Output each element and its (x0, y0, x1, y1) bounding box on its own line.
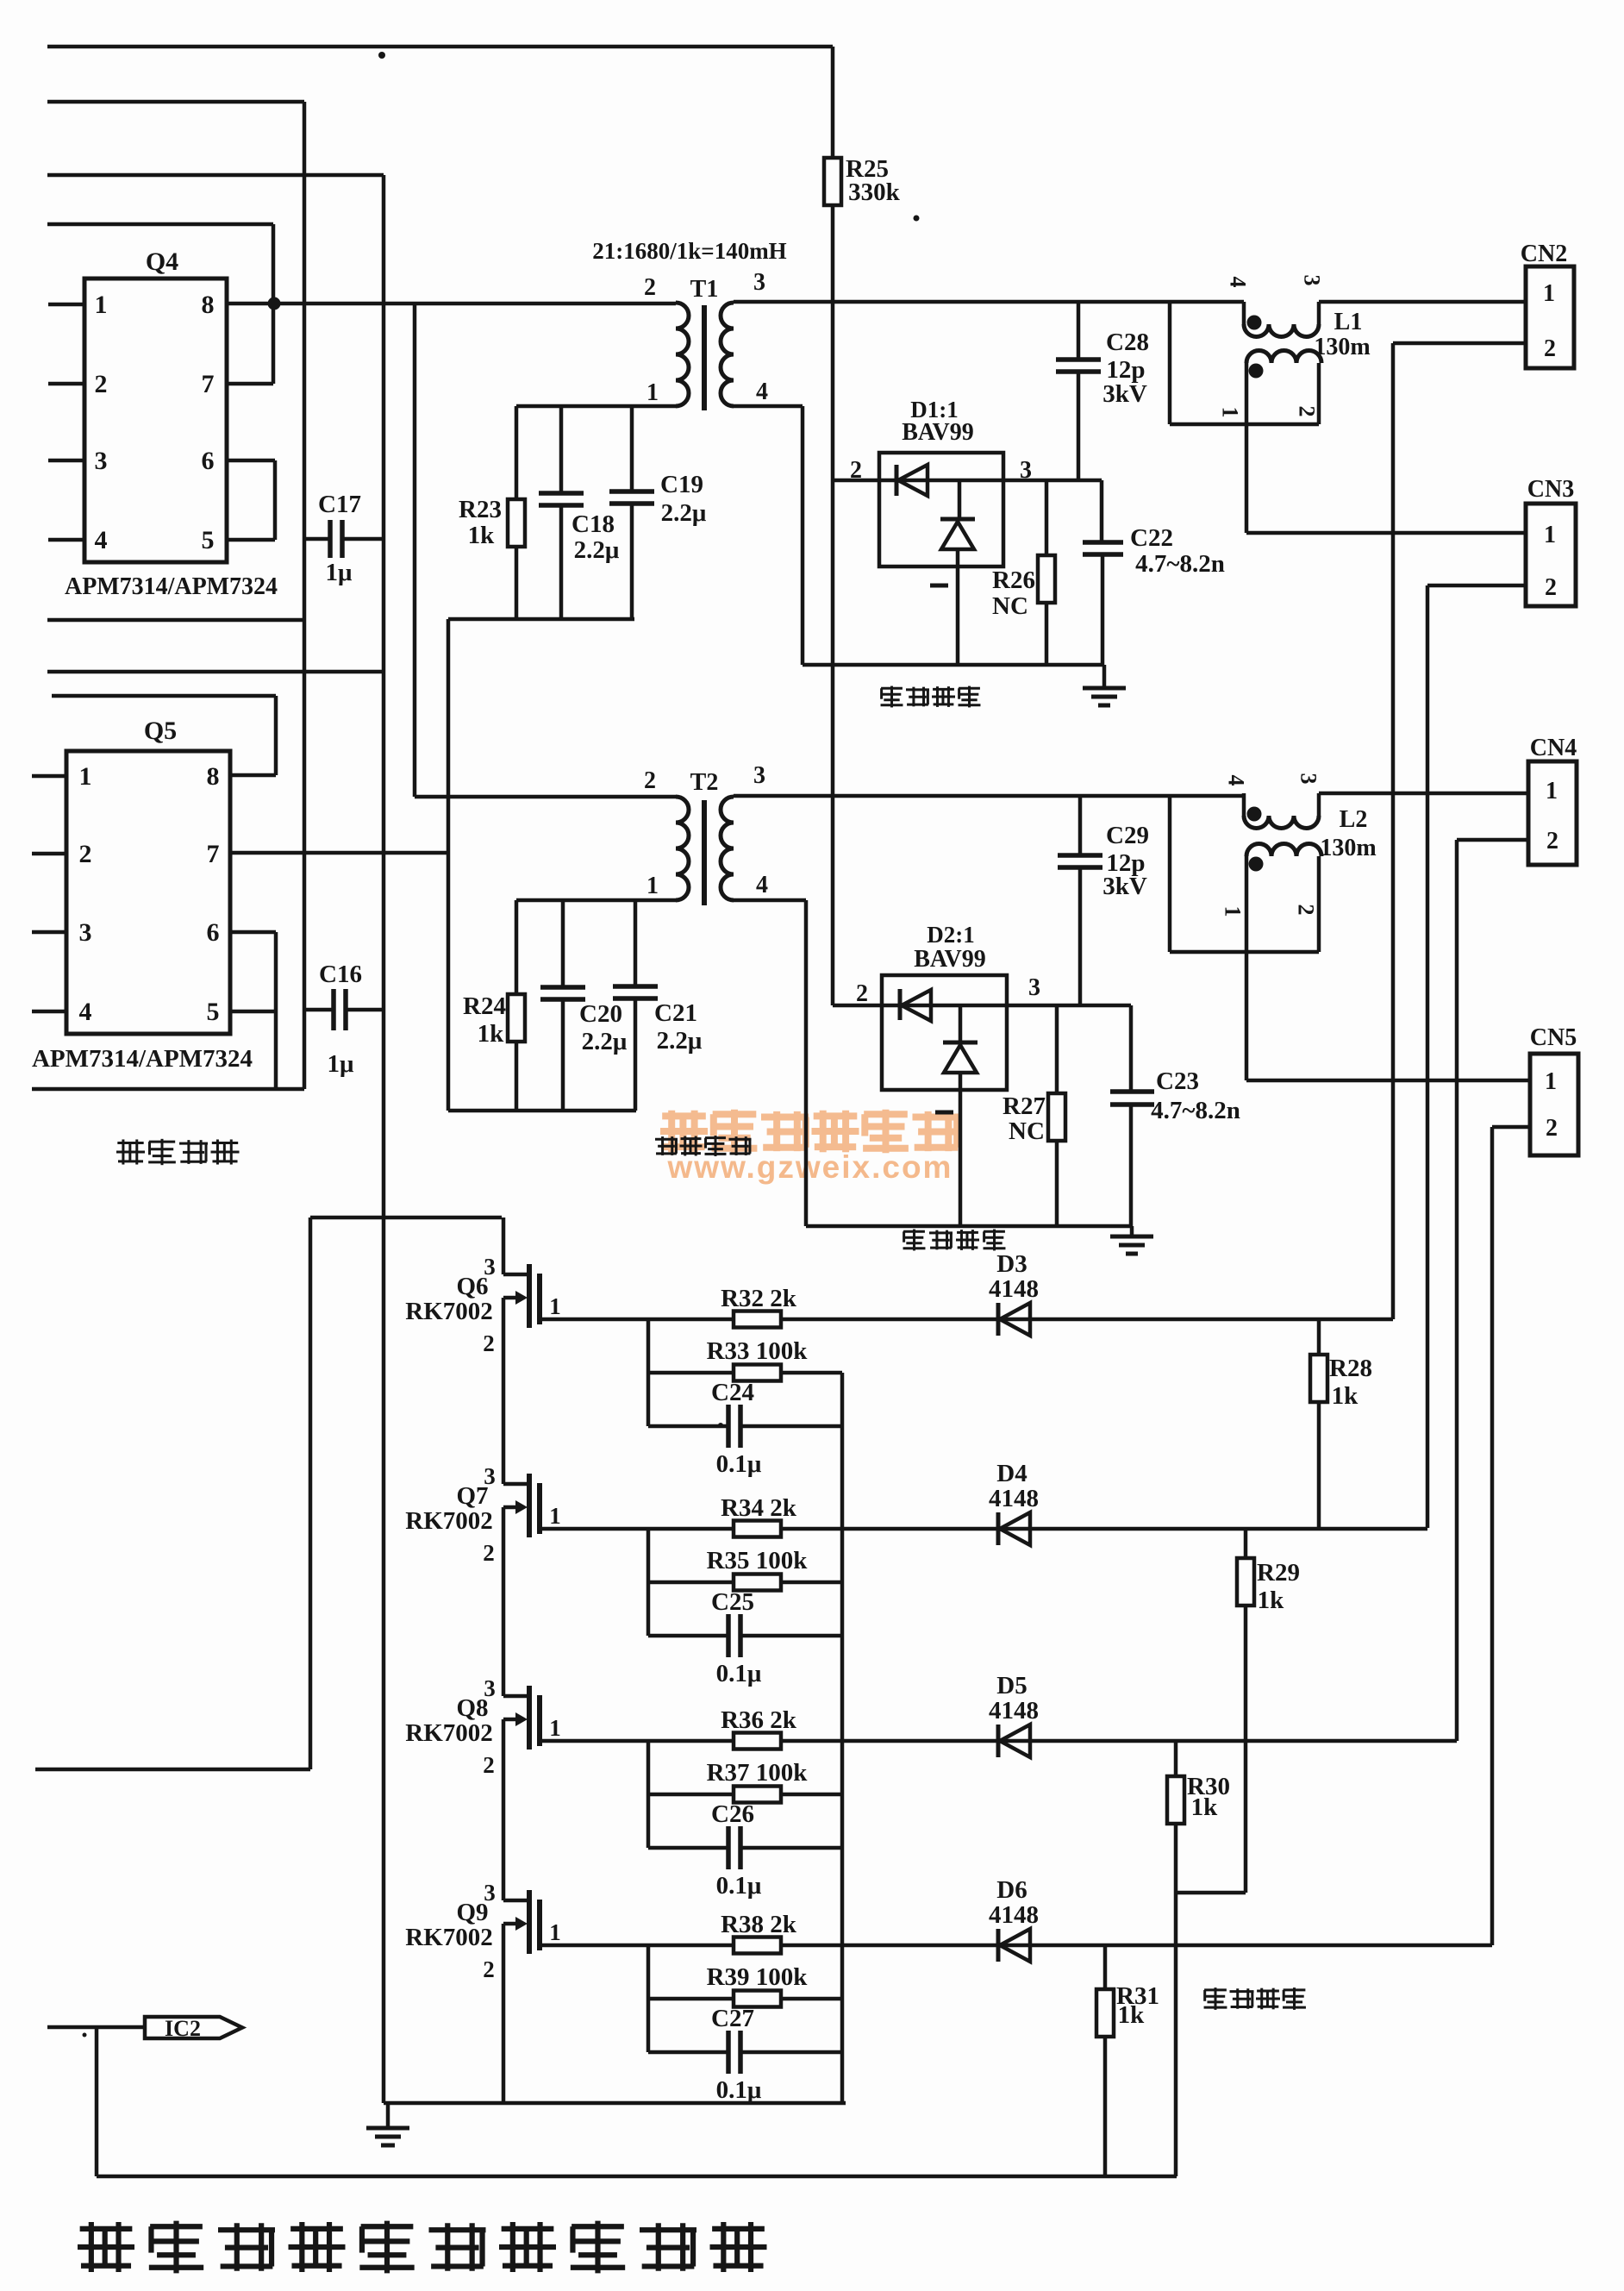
svg-text:R28: R28 (1329, 1355, 1372, 1382)
capacitor C27 0.1u (648, 2005, 842, 2104)
net flag IC2 (47, 2016, 242, 2041)
transistor Q7 RK7002 (405, 1463, 561, 1566)
wire Q4 pin7 tie (227, 382, 273, 386)
label voltage-detect 2 (903, 1230, 1006, 1251)
svg-text:R38 2k: R38 2k (721, 1911, 797, 1938)
wire T2 pin3 line (734, 794, 1244, 798)
svg-text:D3: D3 (996, 1250, 1027, 1278)
wire top rail to R25 (47, 45, 833, 49)
svg-text:4: 4 (79, 998, 92, 1026)
svg-text:D6: D6 (996, 1876, 1027, 1904)
svg-text:CN3: CN3 (1527, 476, 1574, 503)
svg-text:330k: 330k (848, 178, 901, 206)
svg-text:3: 3 (1300, 275, 1325, 286)
connector CN4 (1528, 735, 1577, 865)
svg-text:R33 100k: R33 100k (707, 1337, 809, 1365)
wire Q4pin8 branch down to T2 pin2 (415, 304, 676, 797)
wire L1 pin1 to CN3 pin1 (1246, 531, 1526, 535)
svg-text:RK7002: RK7002 (405, 1719, 493, 1747)
wire D2 pin3 node (1007, 1004, 1131, 1008)
svg-text:C20: C20 (579, 1000, 622, 1028)
wire row2 RC left vertical (646, 1529, 651, 1636)
wire gate feed horizontal (310, 1216, 502, 1220)
wire D2 pin2 from R25 net (833, 1004, 882, 1008)
wire T2 pin4 down (734, 900, 806, 1226)
svg-text:C18: C18 (572, 510, 615, 538)
svg-text:2: 2 (856, 980, 868, 1007)
svg-text:NC: NC (992, 592, 1028, 620)
svg-text:1k: 1k (1332, 1382, 1359, 1410)
svg-text:C26: C26 (711, 1800, 754, 1828)
label drive-circuit (116, 1139, 240, 1165)
svg-text:D4: D4 (996, 1460, 1027, 1487)
resistor R29 1k (1237, 1528, 1300, 1893)
svg-text:1: 1 (1545, 1068, 1557, 1095)
svg-text:3: 3 (753, 269, 765, 296)
resistor R38 2k (540, 1911, 1492, 1954)
svg-text:2: 2 (95, 370, 108, 398)
svg-text:RK7002: RK7002 (405, 1924, 493, 1951)
svg-text:1: 1 (1544, 522, 1556, 548)
svg-text:Q9: Q9 (456, 1899, 488, 1926)
svg-text:2: 2 (1295, 406, 1320, 417)
svg-text:2.2μ: 2.2μ (574, 536, 620, 564)
wire T2 pin1 lead (516, 898, 676, 903)
svg-text:Q6: Q6 (456, 1273, 488, 1300)
svg-text:1k: 1k (478, 1020, 505, 1048)
svg-text:3: 3 (79, 918, 92, 947)
resistor R23 1k (459, 406, 525, 619)
label boost-circuit (655, 1136, 752, 1156)
wire T1 pin3 line (734, 300, 1244, 304)
resistor R33 100k (648, 1337, 842, 1381)
svg-text:3kV: 3kV (1102, 380, 1147, 408)
wire CN5 pin2 to row4 (1492, 1127, 1530, 1945)
svg-text:2: 2 (1546, 1115, 1558, 1142)
resistor R30 1k (1167, 1741, 1230, 2176)
svg-text:C29: C29 (1106, 822, 1149, 849)
svg-text:BAV99: BAV99 (914, 946, 986, 973)
node Q4 pin8 junction (268, 297, 281, 310)
IC Q4 APM7314/APM7324 (48, 247, 278, 600)
capacitor C16 1u (304, 961, 384, 1078)
svg-text:2: 2 (483, 1330, 495, 1356)
svg-text:Q7: Q7 (456, 1482, 488, 1510)
capacitor C23 4.7~8.2n (1110, 1005, 1240, 1226)
svg-text:2: 2 (1294, 905, 1319, 916)
svg-text:4148: 4148 (989, 1901, 1039, 1929)
wire source rail (384, 2101, 846, 2106)
svg-text:R29: R29 (1257, 1559, 1300, 1587)
dual diode D2 BAV99 (856, 922, 1040, 1226)
svg-text:C19: C19 (660, 471, 703, 498)
wire Q4 pin8 to T1 pin2 (227, 302, 676, 306)
svg-text:2: 2 (644, 274, 656, 301)
svg-text:NC: NC (1009, 1117, 1045, 1145)
wire L2 pin3 to CN4 pin1 (1244, 792, 1528, 796)
svg-text:4: 4 (95, 526, 108, 554)
svg-text:1: 1 (646, 873, 659, 899)
svg-text:R35 100k: R35 100k (707, 1547, 809, 1574)
capacitor C28 12p 3kV (1056, 302, 1149, 480)
svg-text:3: 3 (1296, 773, 1321, 785)
capacitor C20 2.2u (540, 900, 628, 1111)
svg-text:2: 2 (79, 840, 92, 868)
svg-text:CN4: CN4 (1530, 735, 1577, 761)
capacitor C26 0.1u (648, 1800, 842, 1900)
svg-text:1μ: 1μ (328, 1050, 355, 1078)
svg-text:R39 100k: R39 100k (707, 1963, 809, 1991)
wire T1pin3 branch to L1 pin2 (1170, 302, 1319, 424)
diode D5 4148 (989, 1672, 1039, 1757)
wire T1 cap bottom rail (448, 617, 634, 622)
svg-text:Q5: Q5 (144, 717, 177, 745)
svg-text:R34 2k: R34 2k (721, 1494, 797, 1522)
svg-text:1k: 1k (1258, 1587, 1285, 1614)
wire net-B vertical x445 (382, 175, 386, 2103)
svg-text:IC2: IC2 (165, 2016, 201, 2041)
svg-text:4: 4 (1226, 277, 1251, 288)
wire T1 pin4 down (734, 406, 803, 665)
svg-text:1: 1 (1218, 407, 1243, 418)
svg-text:1: 1 (549, 1715, 561, 1741)
wire gate feed vertical (309, 1217, 313, 1769)
capacitor C17 1u (304, 491, 384, 586)
svg-text:C25: C25 (711, 1588, 754, 1616)
svg-text:6: 6 (207, 918, 220, 947)
wire T2 cap bottom rail (448, 1109, 636, 1113)
svg-text:D2:1: D2:1 (927, 922, 975, 948)
wire input line 2 (47, 100, 304, 104)
resistor R34 2k (540, 1494, 1427, 1537)
svg-text:1: 1 (549, 1293, 561, 1319)
svg-text:D5: D5 (996, 1672, 1027, 1699)
capacitor C22 4.7~8.2n (1083, 480, 1225, 665)
svg-text:1k: 1k (1118, 2001, 1146, 2029)
wire CN4 pin2 to row3 (1457, 840, 1528, 1741)
wire Q5 pin6-pin5 tie (230, 932, 276, 1089)
svg-text:1: 1 (1546, 778, 1558, 804)
svg-text:C23: C23 (1156, 1067, 1199, 1095)
svg-text:C24: C24 (711, 1379, 754, 1406)
svg-text:R26: R26 (992, 566, 1035, 594)
capacitor C18 2.2u (539, 406, 620, 619)
wire D1 pin2 from R25 net (833, 479, 879, 483)
resistor R35 100k (648, 1547, 842, 1591)
transistor Q9 RK7002 (405, 1880, 561, 1982)
resistor R28 1k (1310, 1319, 1372, 1528)
diode D6 4148 (989, 1876, 1039, 1962)
wire T2pin3 branch to L2 pin2 (1170, 796, 1319, 952)
wire CN3 pin2 to row2 (1427, 585, 1526, 1528)
dual diode D1 BAV99 (850, 397, 1032, 665)
svg-text:4: 4 (756, 379, 768, 405)
wire Q5 pin8 stub (230, 773, 276, 778)
svg-text:3kV: 3kV (1102, 873, 1147, 900)
svg-text:1: 1 (79, 762, 92, 791)
svg-text:21:1680/1k=140mH: 21:1680/1k=140mH (592, 238, 786, 264)
wire RC chain vertical (840, 1373, 845, 2103)
svg-text:3: 3 (1028, 974, 1040, 1001)
svg-text:0.1μ: 0.1μ (716, 1660, 762, 1687)
wire D1 pin3 node (1003, 479, 1102, 483)
watermark (660, 1110, 960, 1185)
svg-text:2: 2 (483, 1956, 495, 1982)
inductor L2 130m (1221, 773, 1377, 1081)
wire input line 8 (35, 1768, 310, 1772)
svg-text:Q4: Q4 (146, 247, 178, 276)
svg-text:6: 6 (202, 447, 215, 475)
svg-text:2.2μ: 2.2μ (661, 499, 707, 527)
wire bottom rail (97, 2175, 1177, 2179)
capacitor C24 0.1u (648, 1379, 842, 1478)
svg-text:130m: 130m (1320, 835, 1376, 861)
wire R29-R30 bottom tie (1176, 1891, 1246, 1895)
svg-text:4148: 4148 (989, 1485, 1039, 1512)
connector CN2 (1521, 241, 1574, 368)
svg-text:C28: C28 (1106, 329, 1149, 356)
wire row3 RC left vertical (646, 1741, 651, 1848)
svg-text:C27: C27 (711, 2005, 754, 2032)
svg-text:R37 100k: R37 100k (707, 1759, 809, 1787)
resistor R39 100k (648, 1963, 842, 2007)
svg-text:CN5: CN5 (1530, 1024, 1577, 1051)
connector CN3 (1526, 476, 1576, 606)
capacitor C19 2.2u (609, 406, 707, 619)
svg-text:R24: R24 (463, 992, 506, 1020)
svg-text:5: 5 (202, 526, 215, 554)
svg-text:1: 1 (646, 379, 659, 406)
speck (83, 52, 920, 2037)
wire net-A vertical x353 (303, 102, 307, 1089)
resistor R26 NC (992, 480, 1055, 665)
svg-text:3: 3 (753, 762, 765, 789)
svg-text:1: 1 (549, 1503, 561, 1529)
svg-text:L1: L1 (1334, 309, 1363, 335)
wire bottom-left input (32, 1087, 304, 1092)
wire L1 pin3 to CN2 pin1 (1319, 300, 1526, 304)
svg-text:7: 7 (207, 840, 220, 868)
resistor R37 100k (648, 1759, 842, 1803)
svg-text:8: 8 (202, 291, 215, 319)
svg-text:2: 2 (483, 1752, 495, 1778)
svg-text:CN2: CN2 (1521, 241, 1567, 267)
svg-text:4148: 4148 (989, 1275, 1039, 1303)
IC Q5 APM7314/APM7324 (32, 717, 253, 1073)
resistor R36 2k (540, 1706, 1457, 1750)
svg-text:4: 4 (756, 872, 768, 898)
svg-text:C16: C16 (319, 961, 362, 988)
wire T1 detect bottom rail (803, 663, 1102, 667)
wire input line 5 (47, 618, 304, 623)
svg-text:2: 2 (1544, 335, 1556, 362)
svg-text:2: 2 (644, 767, 656, 794)
svg-text:0.1μ: 0.1μ (716, 2076, 762, 2104)
svg-text:0.1μ: 0.1μ (716, 1450, 762, 1478)
svg-text:L2: L2 (1340, 806, 1368, 833)
svg-text:1k: 1k (468, 522, 496, 549)
diode D4 4148 (989, 1460, 1039, 1545)
svg-text:4.7~8.2n: 4.7~8.2n (1151, 1097, 1240, 1124)
label voltage-detect 1 (881, 686, 981, 708)
svg-text:130m: 130m (1314, 334, 1370, 360)
wire input line 4 to Q4 pin8 node (47, 224, 273, 384)
wire row4 RC left vertical (646, 1945, 651, 2052)
svg-text:4: 4 (1224, 775, 1249, 786)
wire T2 detect bottom rail (806, 1224, 1131, 1229)
wire Q4 pin6-pin5 tie (227, 460, 275, 540)
svg-text:2.2μ: 2.2μ (657, 1027, 703, 1055)
wire row1 RC left vertical (646, 1319, 651, 1426)
svg-text:R27: R27 (1003, 1092, 1046, 1120)
wire CN2 pin2 to row1 (1393, 343, 1526, 1319)
capacitor C25 0.1u (648, 1588, 842, 1687)
svg-text:RK7002: RK7002 (405, 1507, 493, 1535)
transformer T2 (644, 762, 768, 905)
svg-text:2.2μ: 2.2μ (582, 1028, 628, 1055)
transistor Q6 RK7002 (405, 1254, 561, 1356)
svg-text:1: 1 (1221, 906, 1246, 917)
transformer T1 (592, 238, 786, 410)
diode D3 4148 (989, 1250, 1039, 1336)
svg-text:APM7314/APM7324: APM7314/APM7324 (65, 573, 278, 600)
svg-text:1: 1 (549, 1919, 561, 1945)
wire IC2 to bottom rail (95, 2027, 99, 2176)
wire L2 pin1 to CN5 pin1 (1246, 1079, 1530, 1083)
svg-text:T1: T1 (690, 276, 719, 303)
label current-detect (1204, 1987, 1306, 2010)
svg-text:1μ: 1μ (326, 559, 353, 586)
ground T1 detect (1083, 665, 1126, 705)
svg-text:2: 2 (1546, 828, 1558, 854)
svg-text:1: 1 (1543, 280, 1555, 307)
svg-text:T2: T2 (690, 769, 719, 796)
transistor Q8 RK7002 (405, 1675, 561, 1778)
capacitor C29 12p 3kV (1058, 796, 1149, 1005)
svg-text:Q8: Q8 (456, 1694, 488, 1722)
resistor R24 1k (463, 900, 525, 1111)
svg-text:7: 7 (202, 370, 215, 398)
svg-text:1: 1 (95, 291, 108, 319)
svg-text:C17: C17 (318, 491, 361, 518)
resistor R25 330k (824, 47, 901, 1005)
svg-text:4.7~8.2n: 4.7~8.2n (1135, 550, 1225, 578)
svg-text:R23: R23 (459, 496, 502, 523)
svg-text:2: 2 (483, 1540, 495, 1566)
wire Q5 pin7 line (230, 851, 448, 855)
title caption (78, 2221, 767, 2274)
svg-text:BAV99: BAV99 (902, 419, 974, 446)
svg-text:APM7314/APM7324: APM7314/APM7324 (32, 1045, 253, 1073)
svg-text:0.1μ: 0.1μ (716, 1872, 762, 1900)
wire input line 3 (47, 173, 384, 178)
wire T1 cap rail to Q5 pin7 and T2 rail x520 (447, 619, 451, 1111)
ground T2 detect (1110, 1226, 1153, 1254)
connector CN5 (1530, 1024, 1578, 1155)
svg-text:1k: 1k (1191, 1793, 1219, 1821)
svg-text:R32 2k: R32 2k (721, 1285, 797, 1312)
svg-text:3: 3 (95, 447, 108, 475)
capacitor C21 2.2u (613, 900, 703, 1111)
resistor R32 2k (540, 1285, 1393, 1328)
svg-text:C21: C21 (654, 999, 697, 1027)
svg-text:C22: C22 (1130, 524, 1173, 552)
svg-text:5: 5 (207, 998, 220, 1026)
wire gate bus (502, 1217, 506, 2103)
svg-text:RK7002: RK7002 (405, 1298, 493, 1325)
inductor L1 130m (1218, 275, 1371, 534)
ground main (366, 2103, 409, 2145)
svg-text:4148: 4148 (989, 1697, 1039, 1725)
resistor R31 1k (1096, 1945, 1159, 2176)
wire T1 pin1 lead (516, 404, 676, 409)
svg-text:8: 8 (207, 762, 220, 791)
wire input line 6 (47, 670, 384, 674)
resistor R27 NC (1003, 1005, 1065, 1226)
svg-text:R36 2k: R36 2k (721, 1706, 797, 1734)
svg-text:2: 2 (1545, 574, 1557, 601)
wire input line 7 to Q5 pin8 (52, 696, 276, 775)
